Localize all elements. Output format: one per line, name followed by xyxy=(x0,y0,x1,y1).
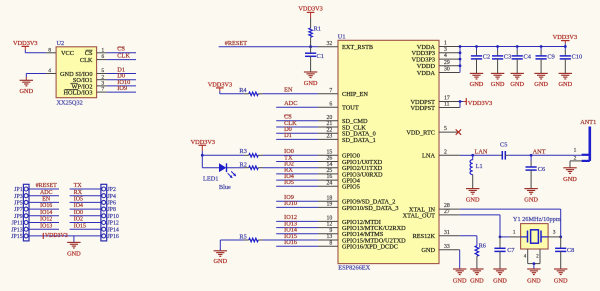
svg-text:VDD_RTC: VDD_RTC xyxy=(406,130,435,137)
svg-text:GND: GND xyxy=(19,88,33,95)
svg-text:GND: GND xyxy=(558,81,572,88)
svg-text:16: 16 xyxy=(327,174,333,180)
svg-text:JP5: JP5 xyxy=(14,201,23,207)
svg-text:25: 25 xyxy=(327,168,333,174)
svg-text:JP3: JP3 xyxy=(14,194,23,200)
svg-text:2: 2 xyxy=(101,74,104,80)
svg-text:26: 26 xyxy=(327,156,333,162)
svg-text:IO5: IO5 xyxy=(74,197,83,203)
svg-text:7: 7 xyxy=(329,88,332,94)
svg-text:CHIP_EN: CHIP_EN xyxy=(342,91,368,98)
svg-text:ADC: ADC xyxy=(284,100,297,107)
svg-text:10: 10 xyxy=(327,216,333,222)
svg-text:30: 30 xyxy=(444,67,450,73)
svg-text:27: 27 xyxy=(444,209,450,215)
svg-text:1: 1 xyxy=(444,41,447,47)
svg-text:RX: RX xyxy=(74,190,83,196)
svg-text:R2: R2 xyxy=(240,161,247,168)
svg-text:JP9: JP9 xyxy=(14,214,23,220)
svg-text:IO4: IO4 xyxy=(74,203,83,209)
svg-text:ADC: ADC xyxy=(40,190,53,196)
svg-text:GPIO10/SD_DATA_3: GPIO10/SD_DATA_3 xyxy=(342,205,399,212)
svg-text:8: 8 xyxy=(48,47,51,53)
svg-text:29: 29 xyxy=(444,60,450,66)
svg-text:TOUT: TOUT xyxy=(342,105,359,112)
svg-text:LAN: LAN xyxy=(475,148,488,155)
svg-text:JP11: JP11 xyxy=(11,221,22,227)
svg-text:C5: C5 xyxy=(500,142,507,149)
svg-text:GND: GND xyxy=(524,196,538,203)
svg-text:GND: GND xyxy=(421,247,435,254)
svg-text:GPIO5: GPIO5 xyxy=(342,184,360,191)
svg-text:C7: C7 xyxy=(507,247,514,254)
svg-text:GND: GND xyxy=(470,81,484,88)
svg-text:6: 6 xyxy=(329,101,332,107)
svg-text:18: 18 xyxy=(327,195,333,201)
svg-text:GND: GND xyxy=(527,277,541,284)
svg-text:VDDA: VDDA xyxy=(417,70,436,77)
svg-text:JP16: JP16 xyxy=(107,234,119,240)
svg-text:VDD3V3: VDD3V3 xyxy=(468,100,493,107)
svg-text:4: 4 xyxy=(48,68,51,74)
svg-text:VDD3V3: VDD3V3 xyxy=(191,139,216,146)
svg-text:IO15: IO15 xyxy=(74,223,86,229)
svg-text:JP2: JP2 xyxy=(107,187,116,193)
svg-text:4: 4 xyxy=(444,53,447,59)
svg-text:CLK: CLK xyxy=(80,57,93,64)
svg-text:C1: C1 xyxy=(317,53,324,60)
svg-text:12: 12 xyxy=(327,222,333,228)
svg-text:6: 6 xyxy=(101,54,104,60)
svg-text:SD_DATA_1: SD_DATA_1 xyxy=(342,137,376,144)
svg-text:GND: GND xyxy=(304,80,318,87)
svg-text:JP10: JP10 xyxy=(107,214,119,220)
svg-text:IO0: IO0 xyxy=(74,210,83,216)
svg-text:GND: GND xyxy=(67,250,81,257)
svg-text:IO2: IO2 xyxy=(284,161,294,168)
svg-text:JP7: JP7 xyxy=(14,207,23,213)
svg-text:3: 3 xyxy=(553,230,556,236)
svg-text:GND: GND xyxy=(491,81,505,88)
svg-text:C9: C9 xyxy=(547,53,554,60)
svg-text:1: 1 xyxy=(513,230,516,236)
svg-text:XX25Q32: XX25Q32 xyxy=(57,100,83,107)
svg-text:R3: R3 xyxy=(240,148,247,155)
svg-text:IO9: IO9 xyxy=(117,85,127,92)
svg-text:GND: GND xyxy=(554,277,568,284)
svg-text:IO2: IO2 xyxy=(74,217,83,223)
svg-text:31: 31 xyxy=(444,230,450,236)
svg-text:IO0: IO0 xyxy=(284,148,294,155)
svg-text:EN: EN xyxy=(284,87,293,94)
svg-text:21: 21 xyxy=(327,121,333,127)
svg-text:VDD3V3: VDD3V3 xyxy=(45,233,68,239)
svg-text:VDDPST: VDDPST xyxy=(411,105,436,112)
svg-text:JP15: JP15 xyxy=(11,234,23,240)
svg-text:1: 1 xyxy=(574,148,577,154)
svg-text:IO10: IO10 xyxy=(284,200,297,207)
svg-text:23: 23 xyxy=(327,134,333,140)
svg-text:ANT: ANT xyxy=(533,148,546,155)
svg-text:LED1: LED1 xyxy=(203,175,218,182)
svg-text:U2: U2 xyxy=(57,40,65,47)
svg-text:C4: C4 xyxy=(524,53,532,60)
svg-text:GND: GND xyxy=(493,277,507,284)
svg-text:C6: C6 xyxy=(538,166,545,173)
svg-text:EXT_RSTB: EXT_RSTB xyxy=(342,44,373,51)
svg-text:C10: C10 xyxy=(572,53,583,60)
svg-text:GND: GND xyxy=(466,196,480,203)
svg-text:U1: U1 xyxy=(338,34,346,41)
svg-text:IO13: IO13 xyxy=(40,223,52,229)
svg-text:VDD3V3: VDD3V3 xyxy=(208,82,233,89)
svg-text:C3: C3 xyxy=(504,53,511,60)
svg-text:13: 13 xyxy=(327,234,333,240)
svg-text:19: 19 xyxy=(327,202,333,208)
svg-text:VDD3V3: VDD3V3 xyxy=(13,40,38,47)
svg-text:20: 20 xyxy=(327,115,333,121)
svg-text:5: 5 xyxy=(101,68,104,74)
svg-text:C2: C2 xyxy=(483,53,490,60)
svg-text:8: 8 xyxy=(329,240,332,246)
svg-text:IO16: IO16 xyxy=(40,203,52,209)
svg-text:GND: GND xyxy=(563,176,577,183)
svg-text:ANT1: ANT1 xyxy=(580,119,596,126)
svg-text:14: 14 xyxy=(327,162,333,168)
svg-text:LNA: LNA xyxy=(422,153,435,160)
svg-text:GND: GND xyxy=(453,277,467,284)
svg-text:R4: R4 xyxy=(239,87,247,94)
svg-text:C8: C8 xyxy=(567,247,574,254)
svg-text:R6: R6 xyxy=(479,242,486,249)
svg-text:Y1 26MHz/10ppm: Y1 26MHz/10ppm xyxy=(513,216,561,223)
svg-text:32: 32 xyxy=(327,41,333,47)
svg-text:2: 2 xyxy=(444,149,447,155)
svg-text:RES12K: RES12K xyxy=(413,233,436,240)
svg-text:IO12: IO12 xyxy=(40,217,52,223)
svg-text:CLK: CLK xyxy=(117,53,130,60)
svg-text:JP4: JP4 xyxy=(107,194,116,200)
svg-text:IO15: IO15 xyxy=(284,233,297,240)
svg-text:JP6: JP6 xyxy=(107,201,116,207)
svg-text:3: 3 xyxy=(444,47,447,53)
svg-text:VDD3V3: VDD3V3 xyxy=(553,34,578,41)
svg-text:#RESET: #RESET xyxy=(225,40,248,47)
svg-text:Blue: Blue xyxy=(219,184,231,191)
svg-text:R5: R5 xyxy=(239,234,246,241)
svg-text:#RESET: #RESET xyxy=(36,183,57,189)
svg-text:GPIO16/XPD_DCDC: GPIO16/XPD_DCDC xyxy=(342,244,398,251)
svg-text:IO5: IO5 xyxy=(284,179,294,186)
svg-text:9: 9 xyxy=(329,228,332,234)
svg-text:IO14: IO14 xyxy=(40,210,52,216)
svg-text:GND: GND xyxy=(470,277,484,284)
svg-text:TX: TX xyxy=(74,183,83,189)
svg-text:VCC: VCC xyxy=(61,50,74,57)
svg-text:22: 22 xyxy=(327,127,333,133)
svg-text:33: 33 xyxy=(444,244,450,250)
svg-text:11: 11 xyxy=(444,102,450,108)
svg-text:JP14: JP14 xyxy=(107,227,119,233)
svg-text:1: 1 xyxy=(101,47,104,53)
svg-text:24: 24 xyxy=(327,180,333,186)
svg-text:ESP8266EX: ESP8266EX xyxy=(338,265,370,272)
svg-text:D1: D1 xyxy=(284,132,292,139)
svg-text:JP12: JP12 xyxy=(107,221,119,227)
svg-text:R1: R1 xyxy=(314,25,321,32)
svg-text:JP8: JP8 xyxy=(107,207,116,213)
svg-text:5: 5 xyxy=(444,126,447,132)
svg-text:JP13: JP13 xyxy=(11,227,23,233)
svg-text:L1: L1 xyxy=(476,163,483,170)
svg-text:GND: GND xyxy=(213,258,227,265)
svg-text:EN: EN xyxy=(42,197,51,203)
svg-text:GND: GND xyxy=(510,81,524,88)
svg-text:JP1: JP1 xyxy=(14,187,23,193)
svg-text:XTAL_OUT: XTAL_OUT xyxy=(403,212,436,219)
svg-text:HOLD/IO3: HOLD/IO3 xyxy=(63,90,92,97)
svg-text:VDD3V3: VDD3V3 xyxy=(298,6,323,13)
svg-text:3: 3 xyxy=(101,81,104,87)
svg-text:7: 7 xyxy=(101,87,104,93)
svg-text:GND: GND xyxy=(534,81,548,88)
svg-text:15: 15 xyxy=(327,149,333,155)
